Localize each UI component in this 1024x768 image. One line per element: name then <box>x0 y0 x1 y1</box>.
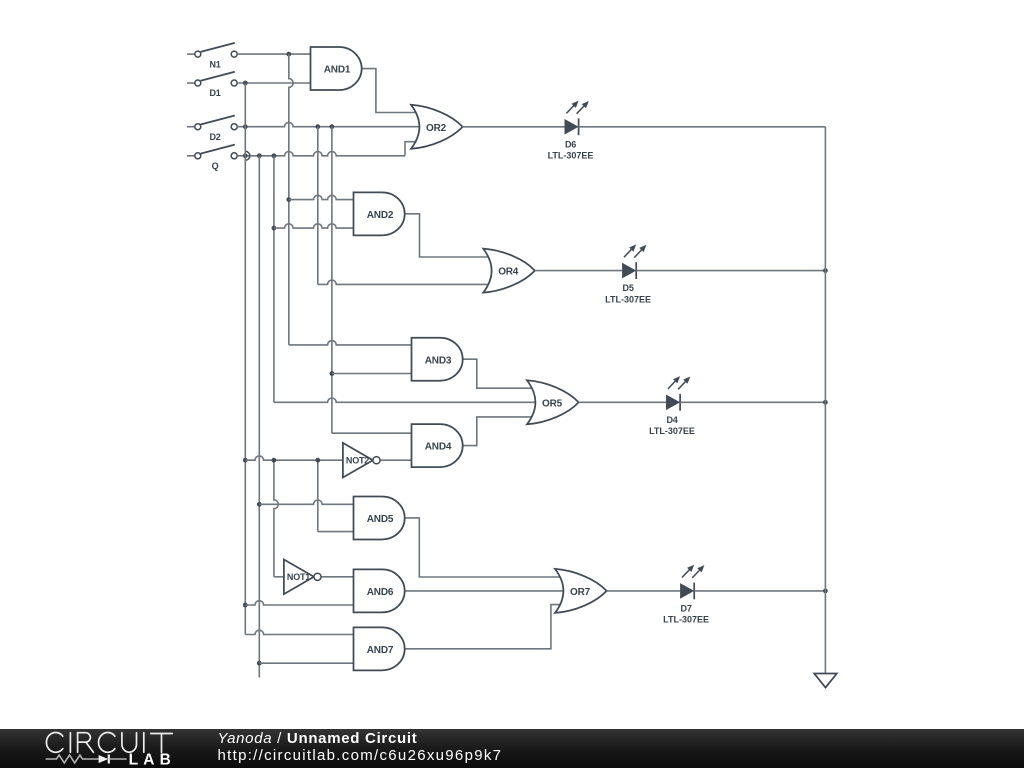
wire AND6 pin2 <box>245 601 353 605</box>
CircuitLab logo text LAB <box>129 752 176 768</box>
wire AND2 out to OR4 pin1 <box>405 214 489 257</box>
wire AND3 out to OR5 pin1 <box>463 359 531 388</box>
junction dot NOT2-wire/bus5b <box>315 458 320 463</box>
switch D2 (SPST) <box>187 116 237 142</box>
wire AND1 out to OR2 pin1 <box>362 69 417 113</box>
wire vertical bus 4 (N1 net) to AND3 pin1 <box>289 54 412 345</box>
wire Q to OR2 pin3 <box>237 142 418 156</box>
switch D1 (SPST) <box>187 72 237 98</box>
CircuitLab logo resistor and diode glyph <box>46 755 127 764</box>
or-gate OR2 <box>411 105 463 149</box>
LED D6 LTL-307EE <box>548 101 594 161</box>
wire AND7 out to OR7 pin3 <box>405 605 560 649</box>
junction dot D7 line/right bus <box>823 589 828 594</box>
wire D1 to AND1 pin2 <box>237 82 310 84</box>
not-gate NOT1 <box>284 560 321 595</box>
wire LED D5 to right bus <box>636 270 825 272</box>
junction dot bus2/AND5 pin1 wire <box>257 502 262 507</box>
footer URL <box>218 747 503 764</box>
wire AND6 out to OR7 pin2 <box>405 590 563 592</box>
wire vertical bus 1 (D1 net) down to AND7 pin1 <box>245 83 353 635</box>
wire AND3 pin2 <box>332 373 412 375</box>
ground <box>814 674 837 688</box>
wire OR5 out to LED D4 <box>579 401 666 403</box>
wire AND7 pin2 <box>259 662 353 664</box>
wire AND2 pin2 <box>274 224 354 228</box>
junction dot D2/vertical-bus-5 <box>315 124 320 129</box>
or-gate OR5 <box>527 380 579 424</box>
junction dot bus3a/AND2 pin2 wire <box>272 226 277 231</box>
switch Q (SPST) <box>187 145 237 171</box>
LED D5 LTL-307EE <box>605 244 651 304</box>
wire AND4 out to OR5 pin3 <box>463 417 531 446</box>
and-gate AND6 <box>354 569 405 612</box>
or-gate OR4 <box>483 249 535 293</box>
junction dot D1/vertical-bus-1 <box>243 81 248 86</box>
wire NOT2 input <box>245 456 343 460</box>
wire vertical bus 6 (D2 net) to AND4 pin1 <box>332 127 412 434</box>
wire vertical bus 3b (NOT2-in net) to NOT1 input <box>274 460 284 577</box>
and-gate AND5 <box>354 496 405 539</box>
wire right bus down to ground <box>824 127 826 674</box>
junction dot bus2/AND7 pin2 wire <box>257 661 262 666</box>
wire NOT1 out to AND6 pin1 <box>321 576 353 578</box>
and-gate AND1 <box>311 47 362 90</box>
LED D4 LTL-307EE <box>649 376 695 436</box>
footer black bar <box>0 729 1024 768</box>
junction dot Q/vertical-bus-3 <box>272 153 277 158</box>
LED D7 LTL-307EE <box>663 565 709 625</box>
wire OR4 out to LED D5 <box>535 270 622 272</box>
wire vertical bus 2 (Q net) down past AND7 <box>258 156 260 678</box>
junction dot D2/vertical-bus-1 <box>243 124 248 129</box>
junction dot bus4/AND2 pin1 wire <box>286 197 291 202</box>
wire vertical bus 5a (D2 net) to OR4 pin2 <box>318 127 490 285</box>
and-gate AND3 <box>412 338 463 381</box>
wire OR2 out to LED D6 <box>463 126 565 128</box>
wire AND2 pin1 <box>289 195 354 199</box>
wire AND5 out to OR7 pin1 <box>405 518 560 577</box>
wire LED D6 to right bus <box>579 126 826 128</box>
junction dot Q/vertical-bus-2 <box>257 153 262 158</box>
wire OR7 out to LED D7 <box>607 590 681 592</box>
or-gate OR7 <box>555 569 607 613</box>
junction dot bus1/NOT2 wire <box>243 458 248 463</box>
and-gate AND4 <box>412 424 463 467</box>
junction dot D2/vertical-bus-6 <box>330 124 335 129</box>
wire vertical bus 5b to AND5 pin2 <box>318 460 354 531</box>
junction dot D4 line/right bus <box>823 400 828 405</box>
not-gate NOT2 <box>343 443 380 478</box>
CircuitLab logo text CIRCUIT (drawn) <box>46 733 172 753</box>
junction dot Q/vertical-bus-1 with hop arc <box>243 151 250 160</box>
junction dot D5 line/right bus <box>823 268 828 273</box>
junction dot bus1/AND6 pin2 wire <box>243 603 248 608</box>
wire N1 to AND1 pin1 <box>237 53 310 55</box>
footer title: Yanoda / Unnamed Circuit <box>218 730 418 747</box>
wire D2 to OR2 pin2 <box>237 122 419 126</box>
junction dot N1/vertical-bus-4 <box>286 52 291 57</box>
wire AND5 pin1 <box>259 500 353 504</box>
junction dot NOT2-wire/bus3b <box>272 458 277 463</box>
and-gate AND2 <box>354 192 405 235</box>
svg-text:LAB: LAB <box>129 752 176 768</box>
wire vertical bus 3a (Q net) to OR5 pin2 <box>274 156 536 402</box>
wire LED D7 to right bus <box>694 590 825 592</box>
switch N1 (SPST) <box>187 43 237 69</box>
wire NOT2 out to AND4 pin2 <box>380 459 411 461</box>
wire LED D4 to right bus <box>680 401 825 403</box>
and-gate AND7 <box>354 627 405 670</box>
junction dot bus6/AND3 pin2 wire <box>330 371 335 376</box>
